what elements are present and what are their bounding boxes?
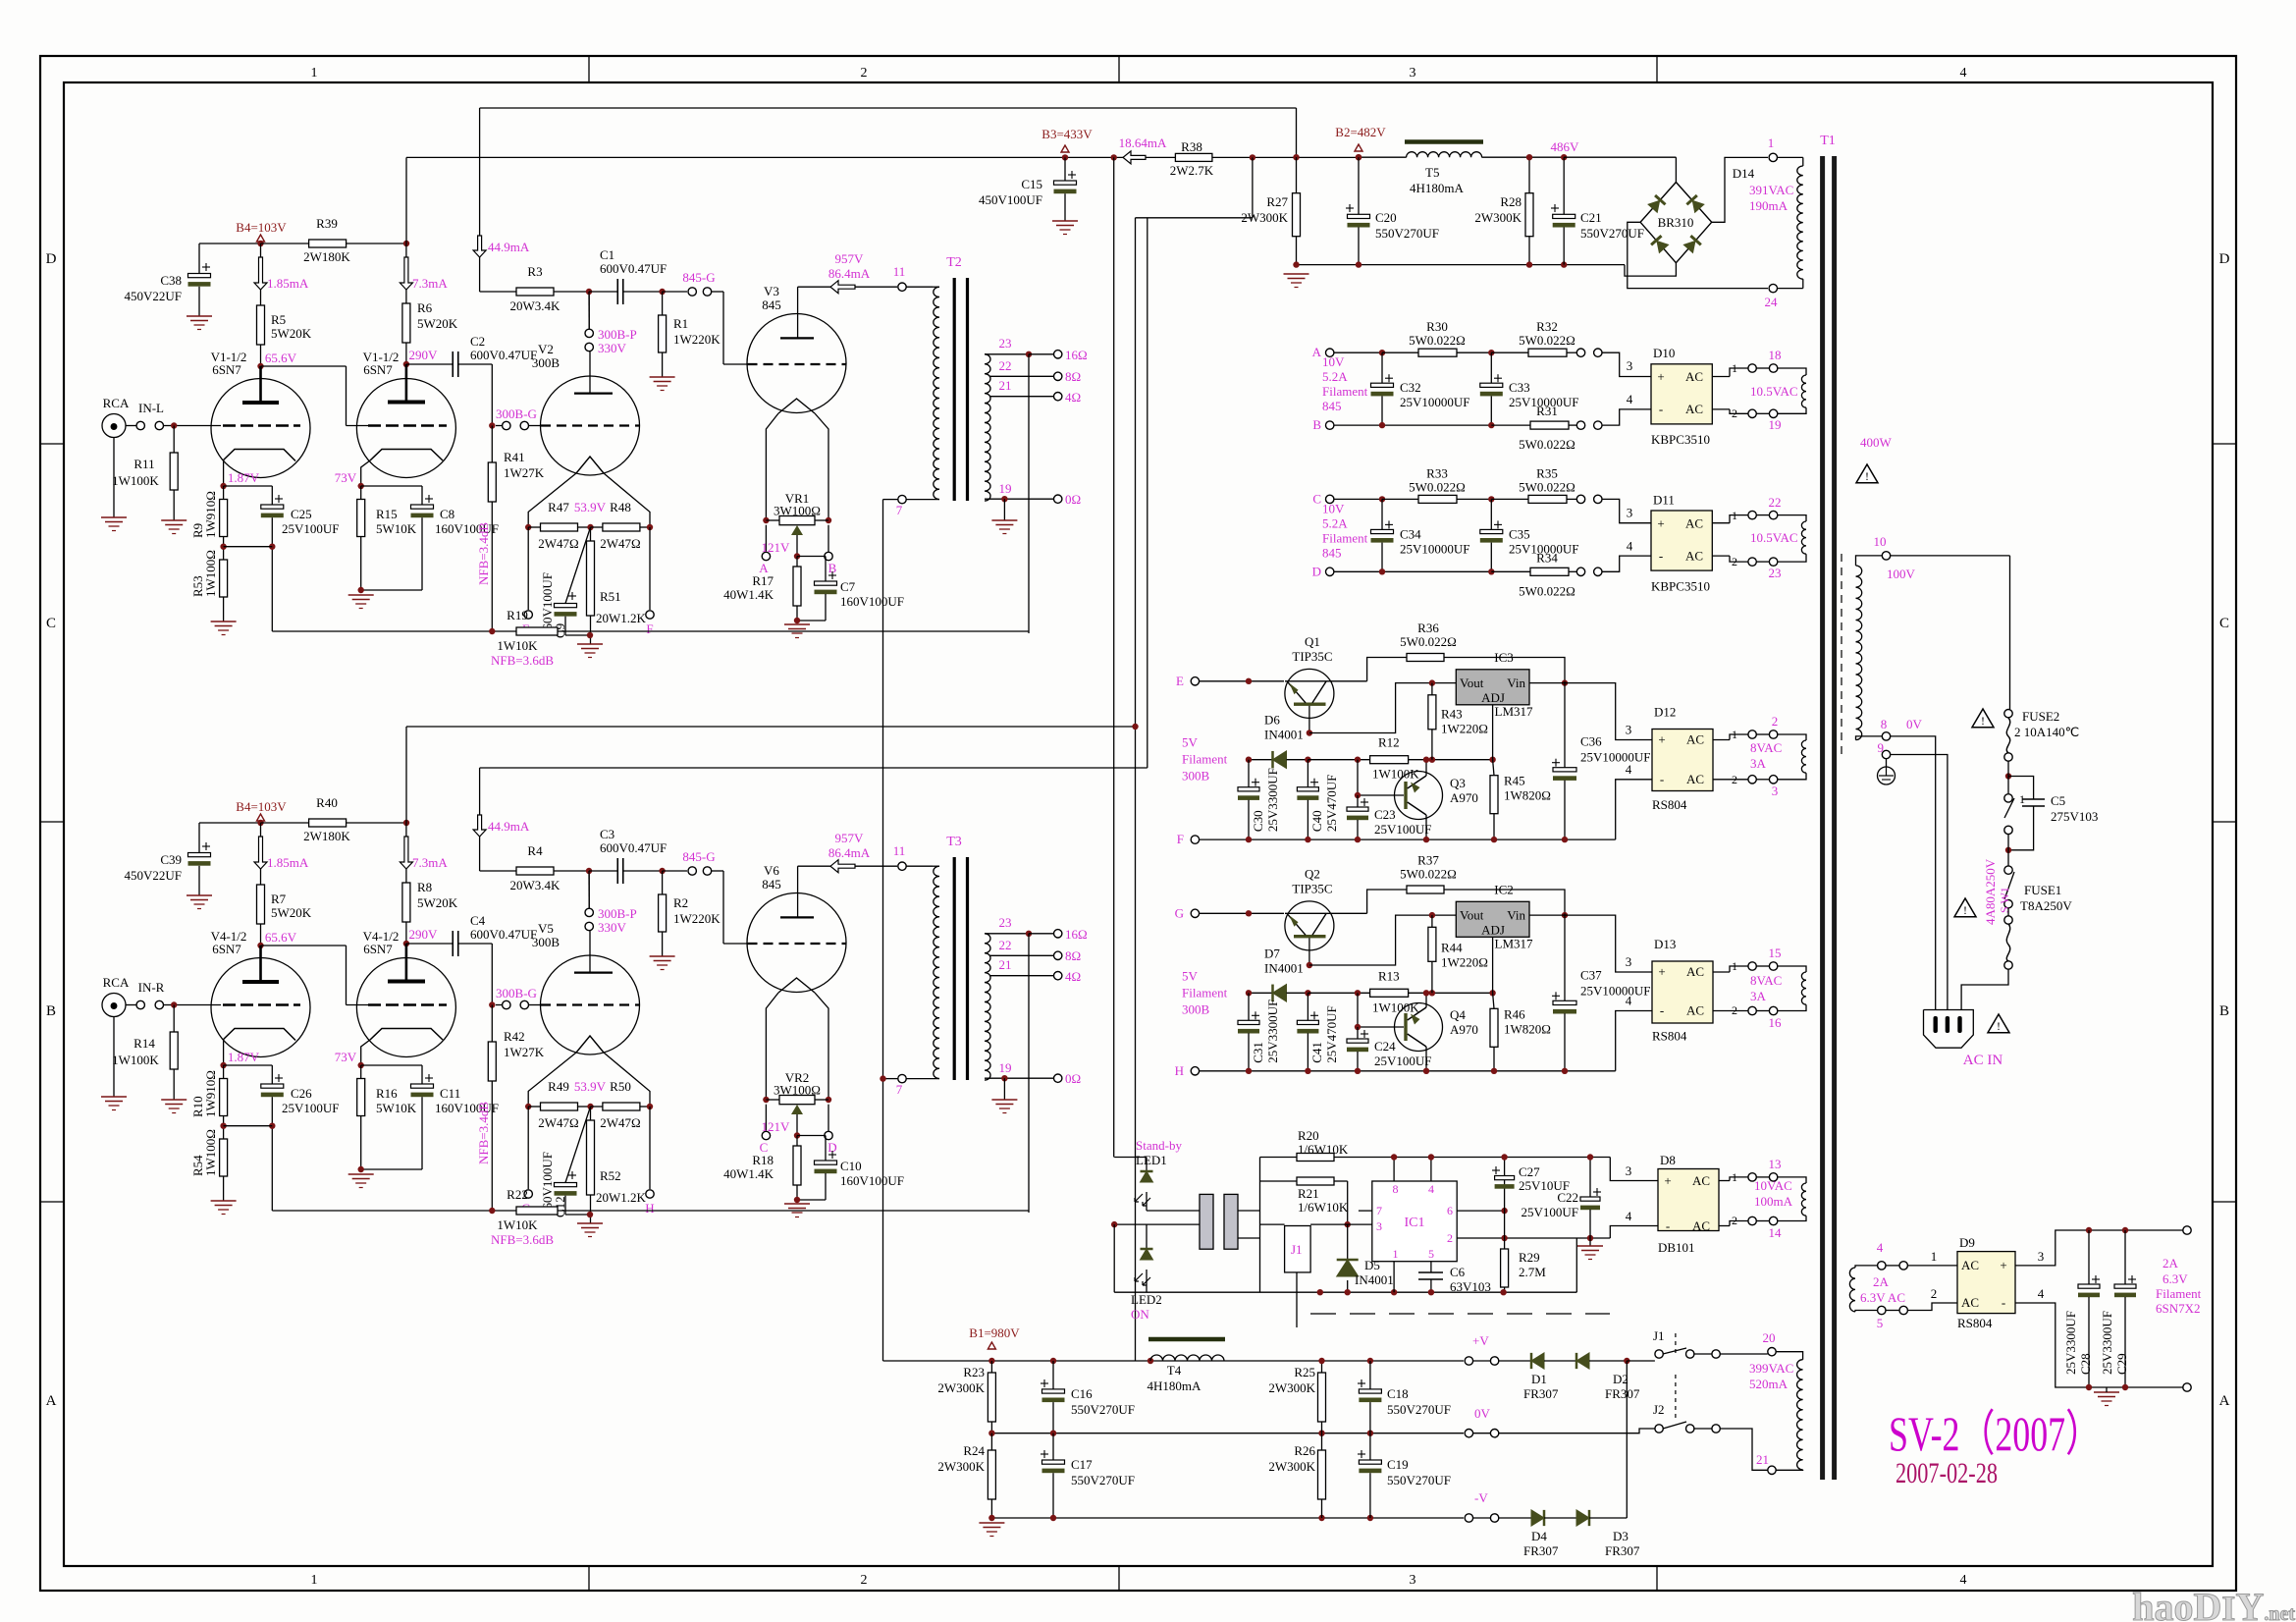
svg-text:53.9V: 53.9V <box>574 1079 607 1094</box>
resistor R41 1W27K grid leak <box>491 426 493 463</box>
triode V1-1/2 plate <box>405 364 408 401</box>
svg-text:23: 23 <box>999 915 1012 930</box>
current arrow 1.85mA <box>254 837 267 869</box>
junction feedback <box>489 1208 495 1214</box>
svg-text:J1: J1 <box>1291 1242 1303 1257</box>
capacitor C25 25V100UF <box>224 485 273 487</box>
resistor R24 2W300K <box>990 1433 992 1450</box>
triode V6 plate <box>780 916 814 918</box>
svg-text:1/6W10K: 1/6W10K <box>1298 1200 1349 1215</box>
svg-text:ADJ: ADJ <box>1481 922 1505 937</box>
node 290V plate V4-1/2 <box>403 941 409 946</box>
resistor R45 1W820ohm <box>1490 776 1498 814</box>
resistor R9 1W910ohm <box>223 486 225 500</box>
svg-text:+: + <box>1657 515 1664 530</box>
svg-text:1.87V: 1.87V <box>228 470 260 485</box>
svg-text:400W: 400W <box>1860 435 1893 450</box>
svg-text:845: 845 <box>762 297 781 312</box>
node 73V cathode V4-1/2 <box>358 1062 364 1068</box>
svg-text:18: 18 <box>1769 348 1782 362</box>
svg-text:25V470UF: 25V470UF <box>1324 775 1339 833</box>
resistor R39 2W180K <box>309 240 347 247</box>
svg-text:B4=103V: B4=103V <box>236 220 287 235</box>
diode D4 FR307 <box>1499 1517 1531 1519</box>
ground under R1 <box>650 376 675 378</box>
svg-text:R16: R16 <box>376 1086 398 1101</box>
node 73V cathode V1-1/2 <box>358 483 364 489</box>
svg-text:25V10000UF: 25V10000UF <box>1580 750 1651 765</box>
svg-text:!: ! <box>1997 1019 2001 1033</box>
wire bridge AC1 to winding <box>1712 376 1730 378</box>
terminal D <box>1326 568 1334 575</box>
svg-text:AC: AC <box>1685 515 1703 530</box>
capacitor C30 25V3300UF <box>1248 760 1250 787</box>
transformer T2 core <box>953 278 956 501</box>
resistor R42 1W27K grid leak <box>491 1005 493 1043</box>
ground rail bottom of B2 filter <box>1297 264 1626 266</box>
svg-text:0Ω: 0Ω <box>1065 1071 1081 1086</box>
potentiometer VR2 3W100ohm hum balance <box>763 1097 769 1103</box>
svg-text:450V22UF: 450V22UF <box>124 868 182 883</box>
svg-text:TIP35C: TIP35C <box>1292 881 1332 895</box>
triode V6 grid <box>748 943 846 945</box>
svg-text:T8A250V: T8A250V <box>2020 898 2072 913</box>
svg-text:R21: R21 <box>1298 1186 1319 1201</box>
svg-text:300B-G: 300B-G <box>496 986 537 1000</box>
connector bars <box>1200 1194 1213 1249</box>
svg-text:AC: AC <box>1685 548 1703 563</box>
junction R15 bottom <box>358 1166 364 1172</box>
emitter junction Q1 <box>1308 706 1310 733</box>
svg-text:3: 3 <box>1626 1163 1632 1178</box>
triode V4-1/2 6SN7 envelope <box>211 958 310 1057</box>
svg-text:C24: C24 <box>1374 1039 1396 1054</box>
triode V2 filament chevron <box>576 457 604 473</box>
warning triangle 400W <box>1856 464 1878 483</box>
terminals after R31 <box>1576 421 1584 429</box>
svg-text:R50: R50 <box>610 1079 631 1094</box>
junction 300B plate feed <box>586 868 592 874</box>
junction Vin <box>1562 679 1568 685</box>
svg-text:3: 3 <box>2038 1249 2045 1264</box>
terminal 7 <box>907 499 940 501</box>
capacitor C34 25V10000UF <box>1381 499 1383 529</box>
resistor R46 1W820ohm <box>1490 1008 1498 1047</box>
wire IC1 pin6 <box>1457 1210 1504 1212</box>
svg-text:T5: T5 <box>1425 165 1439 180</box>
junctions bottom <box>1379 568 1385 574</box>
svg-text:Filament: Filament <box>1182 985 1228 1000</box>
resistor R48 2W47ohm <box>591 526 603 528</box>
svg-text:T1: T1 <box>1820 134 1836 148</box>
svg-text:DB101: DB101 <box>1658 1240 1695 1255</box>
terminal 8 0V <box>1882 732 1890 740</box>
svg-text:D11: D11 <box>1653 492 1675 507</box>
junction R38 right <box>1250 154 1255 160</box>
wire D8 pin3 <box>1610 1158 1658 1181</box>
wire bridge AC2 to winding <box>1712 408 1730 410</box>
svg-text:R51: R51 <box>600 589 621 604</box>
svg-text:C: C <box>46 616 56 631</box>
svg-text:3: 3 <box>1627 505 1633 519</box>
svg-text:10VAC: 10VAC <box>1754 1178 1792 1193</box>
triode V1-1/2 plate <box>259 366 262 402</box>
svg-text:ADJ: ADJ <box>1481 690 1505 705</box>
current arrow 7.3mA <box>405 243 407 257</box>
capacitor C8 160V100UF <box>361 485 422 487</box>
svg-text:300B-P: 300B-P <box>598 327 637 342</box>
terminal 24 T1 primary <box>1802 279 1804 288</box>
svg-text:11: 11 <box>893 264 906 279</box>
svg-text:8Ω: 8Ω <box>1065 948 1081 963</box>
svg-text:R49: R49 <box>548 1079 569 1094</box>
svg-text:1: 1 <box>1393 1247 1399 1261</box>
svg-text:D10: D10 <box>1653 346 1675 360</box>
capacitor C41 25V470UF <box>1307 993 1308 1020</box>
terminal D <box>828 1105 829 1131</box>
svg-text:AC: AC <box>1686 772 1704 786</box>
svg-text:Vin: Vin <box>1507 676 1525 690</box>
ground B2 filter <box>1284 273 1309 275</box>
svg-text:C35: C35 <box>1509 526 1530 541</box>
svg-text:R25: R25 <box>1294 1365 1315 1379</box>
svg-text:D: D <box>46 251 57 267</box>
svg-text:C41: C41 <box>1309 1042 1324 1063</box>
resistor R8 5W20K <box>405 869 407 883</box>
T1 winding 100V mains <box>1882 552 1890 560</box>
node 1.87V cathode V1-1/2 <box>220 483 226 489</box>
capacitor C7 160V100UF <box>797 556 826 558</box>
resistor R18 40W1.4K cathode <box>796 1136 798 1147</box>
svg-text:25V3300UF: 25V3300UF <box>2100 1311 2114 1375</box>
resistor R2 1W220K <box>662 871 664 894</box>
svg-text:C20: C20 <box>1375 210 1397 225</box>
warning triangle AC IN <box>1988 1014 2009 1033</box>
capacitor C23 25V100UF <box>1355 792 1361 798</box>
svg-text:121V: 121V <box>762 540 791 555</box>
svg-text:957V: 957V <box>835 831 865 845</box>
svg-text:3: 3 <box>1376 1219 1382 1233</box>
svg-text:T3: T3 <box>946 835 962 849</box>
wire 0V to plug <box>1891 736 1936 1009</box>
svg-text:V5: V5 <box>538 921 554 936</box>
svg-text:2W300K: 2W300K <box>937 1380 985 1395</box>
wire feedback line <box>272 1210 516 1212</box>
wire bridge bottom to ground rail <box>1625 263 1676 276</box>
svg-text:2W47Ω: 2W47Ω <box>600 536 640 551</box>
junction C33 top <box>1488 496 1494 502</box>
svg-text:290V: 290V <box>409 927 439 942</box>
svg-text:C17: C17 <box>1071 1457 1093 1472</box>
svg-text:845-G: 845-G <box>682 270 715 285</box>
svg-text:23: 23 <box>999 336 1012 351</box>
svg-text:AC: AC <box>1686 964 1704 979</box>
diode D3 FR307 <box>1576 1510 1589 1526</box>
svg-text:A: A <box>1312 345 1322 359</box>
resistor R17 40W1.4K cathode <box>796 557 798 568</box>
svg-text:IC2: IC2 <box>1494 882 1514 896</box>
triode V2 300B envelope <box>541 376 640 475</box>
triode V1-1/2 6SN7 envelope <box>211 379 310 478</box>
svg-text:NFB=3.4dB: NFB=3.4dB <box>476 522 491 585</box>
svg-text:5.2A: 5.2A <box>1322 515 1348 530</box>
svg-text:40W1.4K: 40W1.4K <box>723 587 774 602</box>
svg-text:550V270UF: 550V270UF <box>1375 226 1439 241</box>
svg-text:300B-P: 300B-P <box>598 906 637 921</box>
svg-text:R47: R47 <box>548 500 569 514</box>
terminal B <box>828 525 829 552</box>
svg-text:1W820Ω: 1W820Ω <box>1504 788 1551 803</box>
svg-text:C7: C7 <box>840 579 856 594</box>
svg-text:D: D <box>1312 564 1321 578</box>
ground under R15 <box>348 1173 374 1175</box>
junction C33 top <box>1488 350 1494 355</box>
svg-text:R12: R12 <box>1378 735 1400 750</box>
svg-text:FR307: FR307 <box>1605 1543 1640 1558</box>
svg-text:4A80A250V: 4A80A250V <box>1983 858 1998 925</box>
svg-text:AC: AC <box>1692 1173 1710 1188</box>
svg-text:R30: R30 <box>1426 319 1448 334</box>
junction cathode divider <box>220 544 226 550</box>
svg-text:A: A <box>2219 1393 2230 1409</box>
emitter junction Q2 <box>1308 938 1310 965</box>
svg-text:2W47Ω: 2W47Ω <box>538 536 578 551</box>
T1 winding 8VAC 3A upper for D12 <box>1748 730 1756 738</box>
wire C38 to B4 rail <box>199 243 261 244</box>
svg-text:5W0.022Ω: 5W0.022Ω <box>1519 437 1575 452</box>
svg-text:4: 4 <box>1428 1182 1434 1196</box>
svg-text:R32: R32 <box>1536 319 1558 334</box>
resistor R4 20W3.4K <box>479 837 481 871</box>
capacitor C26 25V100UF <box>224 1064 273 1066</box>
triode V3 845 envelope <box>747 314 846 413</box>
wire D8 AC1 to T1 13 <box>1719 1180 1730 1182</box>
svg-text:4: 4 <box>1627 392 1633 406</box>
junction R43 bottom <box>1429 757 1435 763</box>
svg-text:1W27K: 1W27K <box>504 1045 545 1059</box>
svg-text:25V10000UF: 25V10000UF <box>1400 395 1470 409</box>
svg-text:25V100UF: 25V100UF <box>1374 822 1432 837</box>
current arrow 1.85mA <box>254 257 267 290</box>
svg-text:-V: -V <box>1474 1490 1488 1505</box>
svg-text:R26: R26 <box>1294 1443 1315 1458</box>
ground under R15 <box>348 594 374 596</box>
svg-text:550V270UF: 550V270UF <box>1071 1473 1135 1487</box>
svg-text:C1: C1 <box>600 247 614 262</box>
svg-text:1W10K: 1W10K <box>497 638 538 653</box>
triode V4-1/2 grid <box>368 1003 447 1006</box>
svg-text:C5: C5 <box>2051 793 2065 808</box>
svg-text:AC: AC <box>1692 1218 1710 1233</box>
svg-text:4: 4 <box>1960 1573 1967 1588</box>
resistor R52 20W1.2K <box>590 1107 592 1120</box>
svg-text:1W820Ω: 1W820Ω <box>1504 1021 1551 1036</box>
svg-text:25V100UF: 25V100UF <box>282 1101 340 1115</box>
resistor R14 1W100K <box>173 1005 175 1033</box>
wire 65.6V to V4-1/2 grid <box>261 945 347 946</box>
svg-text:IN4001: IN4001 <box>1355 1272 1394 1287</box>
svg-text:NFB=3.6dB: NFB=3.6dB <box>491 653 554 668</box>
svg-text:C15: C15 <box>1021 177 1042 191</box>
svg-text:R46: R46 <box>1504 1006 1525 1021</box>
resistor R26 2W300K <box>1321 1433 1323 1450</box>
junction R21 IC1 pin3 <box>1345 1221 1351 1227</box>
svg-text:+: + <box>2000 1258 2006 1272</box>
svg-text:H: H <box>645 1201 654 1216</box>
capacitor C38 <box>188 274 211 278</box>
ground speaker return <box>1003 1078 1005 1100</box>
svg-text:600V0.47UF: 600V0.47UF <box>470 927 537 942</box>
svg-text:R39: R39 <box>316 216 338 231</box>
svg-text:RS804: RS804 <box>1652 797 1687 812</box>
svg-text:330V: 330V <box>598 920 627 935</box>
svg-text:44.9mA: 44.9mA <box>488 240 530 254</box>
wire B2 feed to R3 <box>479 108 481 236</box>
capacitor C36 25V10000UF <box>1564 681 1566 768</box>
capacitor C2 600V0.47UF coupling <box>406 363 453 365</box>
svg-text:1: 1 <box>311 66 318 81</box>
wire plate to T2 terminal 11 <box>798 286 830 288</box>
svg-text:NFB=3.6dB: NFB=3.6dB <box>491 1232 554 1247</box>
triode V6 filament chevron <box>778 978 815 993</box>
svg-text:330V: 330V <box>598 341 627 355</box>
svg-text:B2=482V: B2=482V <box>1335 125 1386 139</box>
capacitor C9 160V100UF cathode bypass <box>565 527 591 604</box>
svg-text:300B: 300B <box>532 355 561 370</box>
svg-text:15: 15 <box>1769 946 1782 960</box>
connector J1 <box>1285 1226 1311 1272</box>
wire IC1 pin8 pin4 to top rail <box>1393 1158 1395 1182</box>
filament legs V5 <box>528 1053 576 1107</box>
resistor R54 1W100ohm <box>220 1139 228 1176</box>
svg-text:C11: C11 <box>440 1086 460 1101</box>
svg-text:Stand-by: Stand-by <box>1136 1138 1182 1153</box>
svg-text:4H180mA: 4H180mA <box>1410 181 1465 195</box>
svg-text:V3: V3 <box>764 284 779 298</box>
resistor R15 5W10K <box>360 486 362 500</box>
svg-text:B3=433V: B3=433V <box>1041 127 1093 141</box>
svg-text:Q3: Q3 <box>1450 776 1466 790</box>
svg-text:100mA: 100mA <box>1754 1194 1793 1209</box>
wire bridge AC2 to T1 <box>1713 1010 1730 1012</box>
wire winding to D9 pin1 <box>1907 1265 1957 1267</box>
capacitor C19 550V270UF <box>1369 1433 1371 1460</box>
svg-text:!: ! <box>1981 714 1985 728</box>
svg-text:5W0.022Ω: 5W0.022Ω <box>1409 479 1466 494</box>
wire IC1 pin7 stub <box>1359 1210 1372 1212</box>
svg-text:1W27K: 1W27K <box>504 465 545 480</box>
svg-text:2: 2 <box>1447 1231 1453 1245</box>
svg-text:D2: D2 <box>1613 1372 1629 1386</box>
svg-text:8Ω: 8Ω <box>1065 369 1081 384</box>
svg-text:1: 1 <box>1931 1249 1938 1264</box>
wire IC1 bottom rail <box>1260 1291 1577 1293</box>
svg-text:R1: R1 <box>673 316 688 331</box>
svg-text:T2: T2 <box>946 255 962 270</box>
svg-text:2007-02-28: 2007-02-28 <box>1896 1457 1998 1489</box>
svg-text:D3: D3 <box>1613 1529 1629 1543</box>
wire D8 AC2 to T1 14 <box>1719 1225 1730 1227</box>
svg-text:20: 20 <box>1763 1330 1776 1345</box>
svg-text:3: 3 <box>1627 358 1633 373</box>
svg-text:+: + <box>1658 964 1665 979</box>
svg-text:25V100UF: 25V100UF <box>282 521 340 536</box>
svg-text:-: - <box>2002 1295 2005 1310</box>
svg-text:IC1: IC1 <box>1405 1216 1425 1230</box>
svg-text:ON: ON <box>1131 1307 1149 1322</box>
svg-text:C36: C36 <box>1580 734 1602 749</box>
svg-text:R18: R18 <box>752 1153 774 1167</box>
wire B1 rail <box>883 1360 1465 1362</box>
capacitor C33 25V10000UF <box>1490 352 1492 383</box>
svg-text:19: 19 <box>1769 417 1782 432</box>
svg-text:20W1.2K: 20W1.2K <box>596 1190 647 1205</box>
svg-text:0Ω: 0Ω <box>1065 492 1081 507</box>
svg-text:6.3V AC: 6.3V AC <box>1860 1290 1905 1305</box>
svg-text:AC: AC <box>1961 1295 1979 1310</box>
terminals after R32 <box>1576 349 1584 356</box>
svg-text:600V0.47UF: 600V0.47UF <box>600 840 667 855</box>
current arrow 7.3mA <box>405 823 407 837</box>
svg-text:4Ω: 4Ω <box>1065 969 1081 984</box>
svg-text:5W0.022Ω: 5W0.022Ω <box>1519 479 1575 494</box>
svg-text:C26: C26 <box>291 1086 312 1101</box>
wire to bridge pin 3 <box>1602 499 1651 522</box>
capacitor C37 25V10000UF <box>1564 913 1566 1000</box>
node 121V <box>794 1132 800 1138</box>
wire 16ohm tap to feedback <box>1028 354 1030 633</box>
junction C30 top <box>1246 678 1252 684</box>
terminals after R31 <box>1576 568 1584 575</box>
svg-text:5W10K: 5W10K <box>376 1101 417 1115</box>
svg-text:D8: D8 <box>1660 1153 1676 1167</box>
wire D8 pin4 <box>1610 1226 1658 1239</box>
svg-text:600V0.47UF: 600V0.47UF <box>470 348 537 362</box>
svg-text:Filament: Filament <box>1182 752 1228 767</box>
svg-text:C34: C34 <box>1400 526 1421 541</box>
svg-text:D4: D4 <box>1531 1529 1547 1543</box>
svg-text:845-G: 845-G <box>682 849 715 864</box>
node 300B-G V5 <box>489 1001 495 1007</box>
ground under R11 <box>161 1099 187 1101</box>
svg-text:1W910Ω: 1W910Ω <box>203 1070 218 1117</box>
svg-text:LED1: LED1 <box>1136 1153 1167 1167</box>
wire bottom to bridge pin4 <box>1616 780 1652 839</box>
svg-text:R35: R35 <box>1536 465 1558 480</box>
wire B3 rail to bottom driver <box>406 726 1136 728</box>
svg-text:160V100UF: 160V100UF <box>840 1173 904 1188</box>
wire pin3 row <box>1260 1223 1285 1225</box>
wire mid rail to connector <box>1114 1223 1200 1225</box>
svg-text:C33: C33 <box>1509 380 1530 395</box>
svg-text:7.3mA: 7.3mA <box>412 855 448 870</box>
triode V5 plate <box>574 971 613 973</box>
svg-text:550V270UF: 550V270UF <box>1071 1402 1135 1417</box>
terminal F bottom rail <box>1191 836 1199 843</box>
wire to bridge pin 4 <box>1602 409 1651 425</box>
svg-text:C6: C6 <box>1450 1265 1466 1279</box>
svg-text:25V3300UF: 25V3300UF <box>1265 1000 1280 1063</box>
svg-text:1W100K: 1W100K <box>1372 767 1419 782</box>
svg-text:40W1.4K: 40W1.4K <box>723 1166 774 1181</box>
svg-text:2 10A140℃: 2 10A140℃ <box>2014 725 2079 739</box>
svg-text:5V: 5V <box>1182 735 1199 750</box>
svg-text:R29: R29 <box>1519 1250 1540 1265</box>
resistor R27 2W300K bleeder <box>1293 154 1299 160</box>
svg-text:R7: R7 <box>271 892 287 906</box>
wire to bridge pin 3 <box>1602 352 1651 376</box>
T1 winding 6.3VAC 4-5 for D9 <box>1849 1268 1855 1312</box>
